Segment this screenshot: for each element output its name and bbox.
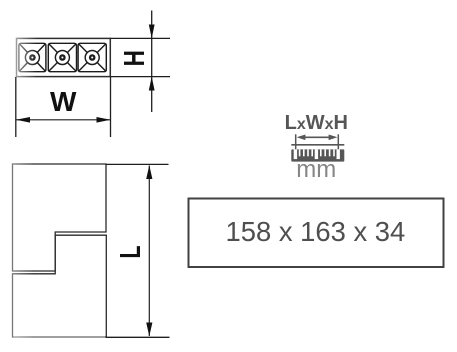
W dimension extension line left <box>15 77 17 137</box>
LxWxH icon ruler body <box>291 149 344 161</box>
LED module 2 <box>48 43 76 71</box>
LED module 3 <box>78 43 106 71</box>
H label <box>117 50 150 66</box>
W dimension line <box>16 117 111 123</box>
front view outer housing rect <box>17 38 111 76</box>
mm unit label <box>296 156 336 183</box>
H dimension extension line top <box>110 37 170 39</box>
LxWxH icon witness tick left <box>295 134 297 149</box>
svg-text:mm: mm <box>296 156 336 183</box>
plan view upper part <box>13 164 107 271</box>
LED module 1 <box>19 43 46 71</box>
L dimension line <box>146 165 152 336</box>
svg-text:L: L <box>115 245 147 258</box>
plan view left fade highlight <box>10 161 34 340</box>
front view left fade highlight <box>13 35 37 80</box>
H dimension extension line bottom <box>110 76 170 78</box>
svg-text:158 x 163 x 34: 158 x 163 x 34 <box>226 216 406 247</box>
W label <box>50 86 77 117</box>
LxWxH icon ruler top edge <box>291 144 344 146</box>
plan view bottom edge soften <box>14 336 106 338</box>
svg-text:W: W <box>50 86 77 117</box>
LxWxH icon double arrow <box>297 135 338 141</box>
svg-text:LxWxH: LxWxH <box>285 112 348 134</box>
LxWxH icon witness tick right <box>337 134 339 149</box>
svg-text:H: H <box>117 50 150 66</box>
W dimension extension line right <box>110 77 112 137</box>
L label <box>115 245 147 258</box>
plan view lower part <box>13 235 107 337</box>
LxWxH icon label <box>285 112 348 134</box>
dimensions value text 158 x 163 x 34 <box>226 216 406 247</box>
L dimension extension line top <box>106 163 169 165</box>
L dimension extension line bottom <box>106 336 170 338</box>
H dimension line <box>149 11 155 113</box>
dimensions value box <box>189 199 444 268</box>
